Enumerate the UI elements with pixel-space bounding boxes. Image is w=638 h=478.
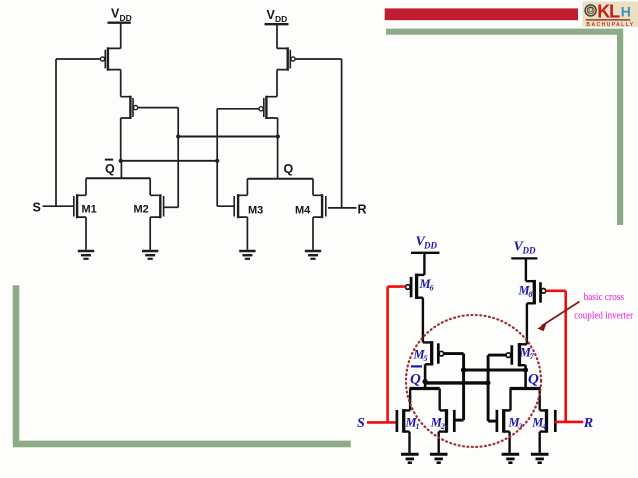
node Qbar right end <box>215 159 219 163</box>
pmos P1R <box>277 47 295 70</box>
node Q column <box>461 367 466 372</box>
wire M7 gate to Qbar column <box>488 354 506 357</box>
ground M4c <box>531 454 549 462</box>
node Q join <box>276 134 280 138</box>
pmos M5 <box>423 341 444 365</box>
label Qbar c <box>410 366 422 387</box>
node Q <box>523 368 528 373</box>
nmos M3 <box>234 179 247 250</box>
wire R output <box>328 207 357 209</box>
pmos P1L <box>100 47 120 70</box>
ground M3 <box>239 251 255 259</box>
wire Qbar line <box>424 381 487 384</box>
svg-text:5: 5 <box>424 354 428 363</box>
wire M2 gate up <box>454 419 463 422</box>
svg-text:6: 6 <box>430 284 434 293</box>
ground M3c <box>502 454 520 462</box>
svg-text:2: 2 <box>440 422 445 431</box>
nmos M4 <box>540 389 556 453</box>
wire M5 gate to Q column <box>444 352 464 355</box>
nmos M1 <box>397 389 410 453</box>
M3/M4 drain bar <box>510 387 541 390</box>
node Qbar <box>119 159 123 163</box>
VDD rail left label <box>111 7 132 23</box>
VDD bar left <box>108 22 131 24</box>
M1/M2 drain bar <box>86 177 150 179</box>
svg-text:M1: M1 <box>82 204 97 216</box>
nmos M4 <box>313 179 326 250</box>
svg-text:coupled inverter: coupled inverter <box>574 310 633 322</box>
wire Qbar to M1/M2 drain bar <box>120 161 122 178</box>
VDD rail right label <box>267 8 288 24</box>
wire M2 gate to cross column <box>164 206 179 208</box>
svg-text:4: 4 <box>541 422 546 431</box>
M3/M4 drain bar <box>247 178 313 180</box>
label M7 <box>519 346 535 362</box>
nmos M3 <box>497 389 511 453</box>
svg-text:DD: DD <box>275 14 287 24</box>
VDD bar left <box>411 252 440 254</box>
VDD bar right <box>511 257 537 259</box>
wire Q column down to M2 gate <box>462 354 465 421</box>
node at cross wire left <box>176 134 180 138</box>
wire P1R gate to R column <box>295 59 342 208</box>
ground M1 <box>78 251 94 259</box>
label M1 c <box>405 416 420 432</box>
svg-text:M3: M3 <box>248 205 263 217</box>
wire M7 drain to Q <box>524 365 527 388</box>
wire VDD to M8 <box>525 258 527 281</box>
wire M5 drain to Qbar <box>424 364 427 388</box>
svg-text:H: H <box>621 4 631 20</box>
label M5 <box>413 348 428 364</box>
label M3 c <box>508 416 523 432</box>
wire Q line <box>464 368 526 371</box>
wire VDD to pmos P1L <box>120 23 122 49</box>
VDD bar right <box>265 23 289 25</box>
svg-text:R: R <box>358 203 367 217</box>
ground M1c <box>401 454 419 462</box>
svg-text:KL: KL <box>597 1 620 21</box>
wire M3 gate from Qbar column <box>217 205 234 207</box>
pmos P2R <box>259 96 278 119</box>
wire VDD to pmos P1R <box>276 24 278 48</box>
svg-text:8: 8 <box>529 290 533 299</box>
label Qbar <box>105 160 115 177</box>
label M4 c <box>531 416 546 432</box>
nmos M2 <box>150 178 163 250</box>
wire drain P2R down to Q and M3/M4 drain bar <box>277 118 279 179</box>
wire P2L gate right then down <box>138 108 179 208</box>
M1/M2 drain bar <box>410 387 440 390</box>
wire M6 drain to M5 <box>422 298 424 343</box>
wire drain P2L to Qbar <box>120 118 122 161</box>
wire Qbar up to P2R gate and down to M3 gate <box>217 109 259 206</box>
pmos M7 <box>506 343 527 367</box>
svg-text:DD: DD <box>522 246 536 256</box>
label M8 <box>518 284 533 300</box>
node Qbar <box>422 379 427 384</box>
nmos M1 <box>74 178 86 250</box>
pmos M8 <box>526 280 546 305</box>
wire red R net <box>546 291 583 422</box>
svg-text:R: R <box>583 416 593 431</box>
wire cross coupling to Q <box>178 136 278 138</box>
svg-text:Q: Q <box>528 372 539 388</box>
wire S input <box>43 205 74 207</box>
wire drain P1L to P2L <box>120 70 122 97</box>
VDD label right <box>514 240 536 256</box>
pmos M6 <box>406 274 425 300</box>
svg-text:BACHUPALLY: BACHUPALLY <box>586 22 634 28</box>
pmos P2L <box>121 96 138 119</box>
node Qbar column <box>485 380 490 385</box>
ground M4 <box>305 251 321 259</box>
wire M8 drain to M7 <box>526 303 528 344</box>
wire drain P1R to P2R <box>276 70 278 97</box>
ground M2 <box>142 251 158 259</box>
svg-text:basic cross: basic cross <box>584 291 625 303</box>
svg-text:Q: Q <box>105 162 115 176</box>
label M6 <box>419 277 434 293</box>
dotted ellipse basic cross coupled inverter <box>406 315 541 447</box>
svg-text:1: 1 <box>416 422 420 431</box>
svg-text:Q: Q <box>284 162 294 176</box>
svg-text:S: S <box>33 201 41 215</box>
svg-text:DD: DD <box>423 241 437 251</box>
nmos M2 <box>439 389 455 453</box>
VDD label left <box>416 235 438 251</box>
annotation arrow <box>537 302 579 332</box>
wire M3 gate from Qbar column <box>488 420 497 423</box>
svg-text:M2: M2 <box>134 204 149 216</box>
svg-text:Q: Q <box>410 372 421 388</box>
wire Qbar column down to M3 gate <box>487 355 490 421</box>
wire VDD to M6 <box>423 253 425 275</box>
label M2 c <box>430 416 445 432</box>
wire red S net <box>367 287 406 423</box>
svg-text:M4: M4 <box>295 205 311 217</box>
svg-text:S: S <box>357 416 365 431</box>
wire P1L gate to S column <box>56 59 100 206</box>
wire Qbar line <box>121 160 218 162</box>
ground M2c <box>430 454 448 462</box>
svg-text:DD: DD <box>120 13 132 23</box>
